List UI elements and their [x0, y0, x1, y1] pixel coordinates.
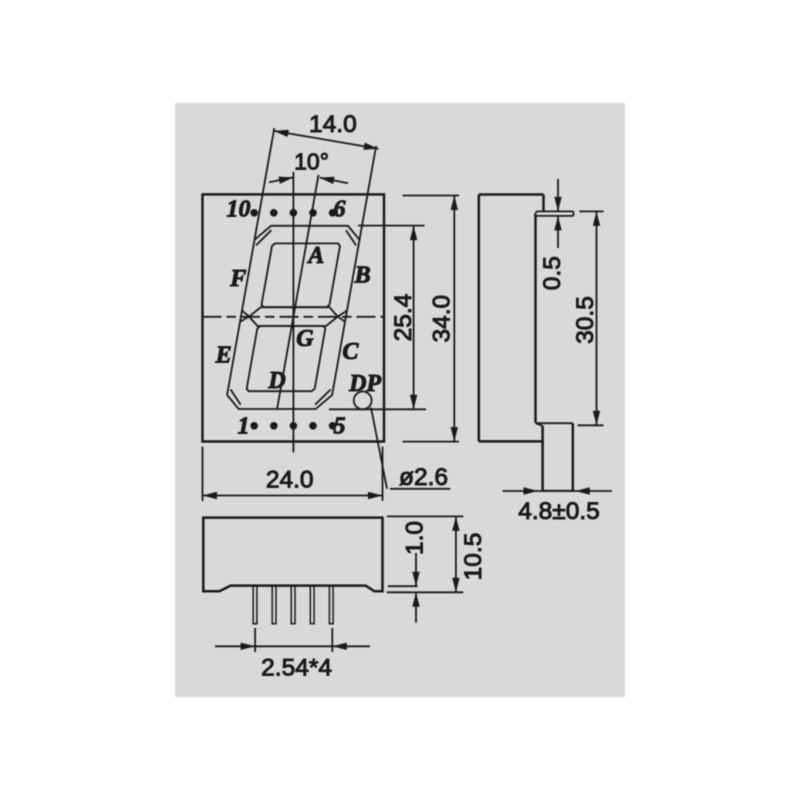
svg-text:5: 5	[334, 414, 346, 440]
svg-text:6: 6	[334, 197, 346, 223]
svg-text:A: A	[306, 243, 324, 269]
svg-text:1.0: 1.0	[402, 521, 429, 555]
svg-text:10: 10	[227, 197, 251, 223]
svg-text:B: B	[354, 263, 371, 289]
svg-text:10.5: 10.5	[460, 533, 487, 581]
svg-text:DP: DP	[348, 371, 381, 397]
svg-text:2.54*4: 2.54*4	[261, 655, 332, 682]
svg-text:14.0: 14.0	[309, 111, 357, 138]
svg-text:25.4: 25.4	[390, 294, 417, 342]
svg-text:E: E	[215, 342, 232, 368]
svg-text:10°: 10°	[294, 149, 329, 175]
svg-text:34.0: 34.0	[429, 295, 456, 343]
svg-text:C: C	[342, 339, 359, 365]
svg-text:4.8±0.5: 4.8±0.5	[518, 498, 600, 525]
svg-text:30.5: 30.5	[572, 296, 599, 344]
svg-text:0.5: 0.5	[539, 256, 566, 290]
svg-text:G: G	[296, 326, 314, 352]
svg-text:ø2.6: ø2.6	[399, 464, 448, 491]
svg-text:F: F	[229, 266, 246, 292]
svg-text:24.0: 24.0	[266, 467, 314, 494]
svg-text:1: 1	[238, 414, 250, 440]
